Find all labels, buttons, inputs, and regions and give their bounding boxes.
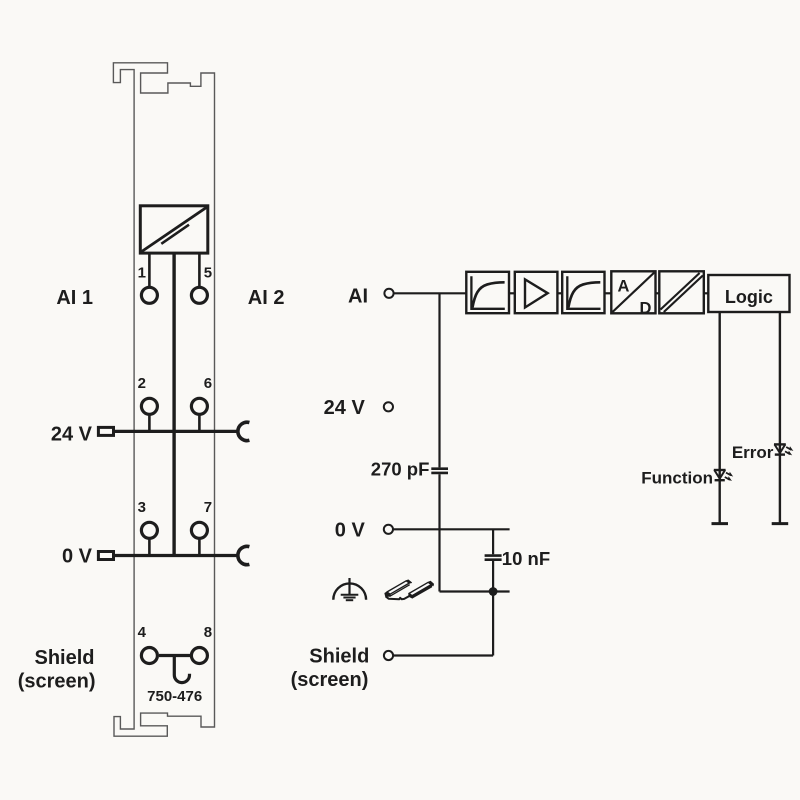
DIN rail symbol [385, 580, 434, 599]
svg-text:Logic: Logic [725, 287, 773, 307]
wire pin2 stem [148, 416, 151, 432]
svg-text:Shield: Shield [34, 647, 94, 669]
terminal bar Error [772, 522, 789, 525]
wire internal bus (converter to 0V rail) [172, 253, 175, 555]
wire Logic to Error LED [779, 312, 781, 524]
terminal square 24V [98, 427, 113, 435]
wire 0V rail [115, 554, 238, 557]
svg-text:10 nF: 10 nF [502, 548, 550, 569]
svg-text:270 pF: 270 pF [371, 458, 430, 479]
wire ISO-Logic [704, 292, 709, 294]
terminal 24V circle right [384, 402, 393, 411]
svg-text:(screen): (screen) [291, 669, 369, 691]
wire F1-amp [509, 292, 515, 294]
capacitor 10 nF [485, 556, 502, 560]
svg-text:6: 6 [204, 375, 212, 392]
wire Logic to Function LED [719, 312, 721, 524]
svg-text:24 V: 24 V [324, 397, 366, 419]
wire ground rail [440, 590, 510, 592]
pin 1 circle [141, 287, 157, 303]
LED Function [714, 470, 733, 481]
wire pin3 stem [148, 540, 151, 556]
amplifier box [515, 272, 558, 313]
svg-text:Shield: Shield [309, 645, 369, 667]
socket arc 24V [238, 422, 250, 440]
junction dot [489, 587, 498, 596]
wire AI branch with 270pF [438, 293, 440, 467]
converter U1 (box with diagonal) [140, 206, 208, 253]
pin 4 circle [141, 648, 157, 664]
terminal square 0V [98, 552, 113, 560]
terminal AI circle [384, 289, 393, 298]
svg-text:3: 3 [138, 499, 146, 516]
filter box F2 [562, 272, 604, 313]
pin 6 circle [191, 398, 207, 414]
logic box [708, 275, 789, 312]
svg-text:24 V: 24 V [51, 423, 93, 445]
wire shield link 4-8 [159, 654, 190, 657]
functional earth symbol [333, 578, 366, 600]
svg-text:Error: Error [732, 443, 774, 462]
svg-text:AI 2: AI 2 [248, 287, 285, 309]
wire shield rail [393, 654, 493, 656]
svg-text:5: 5 [204, 265, 212, 282]
svg-text:(screen): (screen) [18, 671, 96, 693]
terminal bar Function [712, 522, 729, 525]
svg-text:750-476: 750-476 [147, 688, 202, 705]
wire F2-AD [605, 292, 612, 294]
svg-text:1: 1 [138, 265, 146, 282]
wire 24V rail [115, 430, 238, 433]
wire 0V rail right [393, 528, 509, 530]
wire amp-F2 [557, 292, 562, 294]
filter box F1 [466, 272, 509, 313]
wire pin5 stem [198, 253, 201, 286]
svg-text:7: 7 [204, 499, 212, 516]
svg-text:0 V: 0 V [335, 519, 366, 541]
wire AI to filter [394, 292, 467, 294]
pin 7 circle [191, 522, 207, 538]
wire AD-ISO [656, 292, 660, 294]
capacitor 270 pF [431, 469, 448, 473]
terminal 0V circle right [384, 525, 393, 534]
svg-text:2: 2 [138, 375, 146, 392]
pin 3 circle [141, 522, 157, 538]
isolation box [659, 271, 704, 313]
wire pin6 stem [198, 416, 201, 432]
pin 8 circle [191, 648, 207, 664]
LED Error [774, 444, 793, 455]
svg-text:8: 8 [204, 624, 212, 641]
svg-text:AI 1: AI 1 [56, 287, 93, 309]
svg-text:D: D [640, 300, 652, 318]
terminal Shield circle right [384, 651, 393, 660]
svg-text:0 V: 0 V [62, 546, 93, 568]
wire pin7 stem [198, 540, 201, 556]
svg-text:A: A [618, 278, 630, 296]
svg-text:4: 4 [138, 624, 147, 641]
socket arc 0V [238, 546, 250, 564]
A/D converter box [611, 271, 655, 317]
shield drain hook [174, 656, 189, 683]
module outline 750-476 [113, 63, 214, 736]
svg-text:Function: Function [641, 468, 713, 487]
pin 2 circle [141, 398, 157, 414]
pin 5 circle [191, 287, 207, 303]
wire 10nF branch [492, 529, 494, 554]
wire shield drop [492, 592, 494, 656]
svg-text:AI: AI [348, 286, 368, 308]
wire pin1 stem [148, 253, 151, 286]
